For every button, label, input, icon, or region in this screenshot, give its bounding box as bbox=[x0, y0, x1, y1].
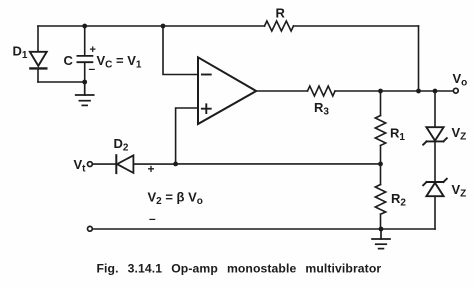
svg-text:+: + bbox=[90, 44, 96, 56]
wire capacitor bottom lead bbox=[84, 63, 86, 82]
svg-text:VZ: VZ bbox=[452, 182, 467, 200]
node junction ground bottom bbox=[379, 227, 384, 232]
resistor R3 bbox=[308, 86, 336, 96]
wire resistor R to feedback corner bbox=[294, 25, 419, 27]
resistor R2 bbox=[375, 185, 385, 215]
wire R2 bottom lead bbox=[380, 214, 382, 229]
ground bottom bbox=[372, 229, 390, 249]
svg-text:Vt: Vt bbox=[74, 157, 87, 175]
svg-text:R: R bbox=[276, 6, 286, 21]
resistor R bbox=[265, 21, 294, 31]
wire between zeners bbox=[434, 141, 436, 182]
diode D2 bbox=[115, 155, 117, 173]
svg-text:V2 = β Vo: V2 = β Vo bbox=[148, 190, 203, 208]
wire R1 top lead bbox=[380, 91, 382, 116]
wire Vt terminal to D2 bbox=[93, 163, 116, 165]
node junction bottom at capacitor bbox=[82, 80, 87, 85]
wire R1 bottom lead bbox=[380, 146, 382, 164]
wire zener bottom lead bbox=[434, 196, 436, 229]
terminal bottom-left open circle bbox=[88, 226, 93, 231]
wire V2 line to R1 R2 junction bbox=[176, 163, 381, 165]
svg-text:R2: R2 bbox=[391, 191, 406, 209]
wire noninverting input branch bbox=[176, 108, 198, 164]
svg-text:VC = V1: VC = V1 bbox=[97, 53, 142, 71]
wire capacitor top lead bbox=[84, 26, 86, 55]
capacitor C plates bbox=[77, 55, 92, 57]
wire op-amp output to R3 bbox=[256, 90, 307, 92]
svg-text:Vo: Vo bbox=[453, 71, 468, 89]
terminal Vt open circle bbox=[88, 162, 93, 167]
svg-text:R1: R1 bbox=[390, 126, 405, 144]
node junction top at capacitor bbox=[82, 24, 87, 29]
node junction inverting branch bbox=[161, 24, 166, 29]
svg-text:C: C bbox=[64, 53, 74, 68]
svg-text:D1: D1 bbox=[13, 44, 28, 62]
wire zener branch top lead bbox=[434, 91, 436, 127]
zener diode VZ lower bbox=[423, 179, 447, 197]
svg-text:+: + bbox=[148, 162, 155, 176]
op-amp minus pin mark bbox=[202, 74, 211, 76]
node junction R1 branch top bbox=[378, 89, 383, 94]
wire bottom rail bbox=[93, 228, 436, 230]
svg-text:D2: D2 bbox=[114, 136, 129, 154]
ground under capacitor bbox=[76, 82, 94, 105]
wire D1 branch top vertical bbox=[37, 26, 39, 52]
diode D1 bbox=[30, 52, 47, 66]
svg-text:Fig. 3.14.1 Op-amp monostable: Fig. 3.14.1 Op-amp monostable multivibra… bbox=[97, 262, 382, 276]
node junction zener branch top bbox=[433, 89, 438, 94]
wire R2 top lead bbox=[380, 164, 382, 185]
node junction feedback at output bbox=[416, 89, 421, 94]
node junction R1 R2 bbox=[378, 162, 383, 167]
op-amp plus pin mark bbox=[202, 104, 211, 113]
svg-text:–: – bbox=[149, 212, 156, 226]
wire D1 bottom vertical bbox=[37, 69, 39, 82]
node junction noninverting input bbox=[173, 162, 178, 167]
wire inverting input branch bbox=[163, 26, 198, 75]
wire D2 to noninverting node bbox=[133, 163, 175, 165]
svg-text:VZ: VZ bbox=[452, 125, 467, 143]
wire output rail to Vo terminal bbox=[335, 90, 453, 92]
terminal Vo open circle bbox=[453, 88, 458, 93]
wire D1 loop bottom horizontal bbox=[38, 81, 85, 83]
op-amp U1 bbox=[198, 57, 256, 124]
resistor R1 bbox=[375, 116, 385, 146]
zener diode VZ upper bbox=[423, 127, 447, 145]
wire top rail left segment (node A to resistor R) bbox=[38, 25, 265, 27]
svg-text:R3: R3 bbox=[314, 100, 329, 118]
svg-text:–: – bbox=[89, 62, 96, 76]
wire feedback vertical down to output node bbox=[418, 26, 420, 91]
